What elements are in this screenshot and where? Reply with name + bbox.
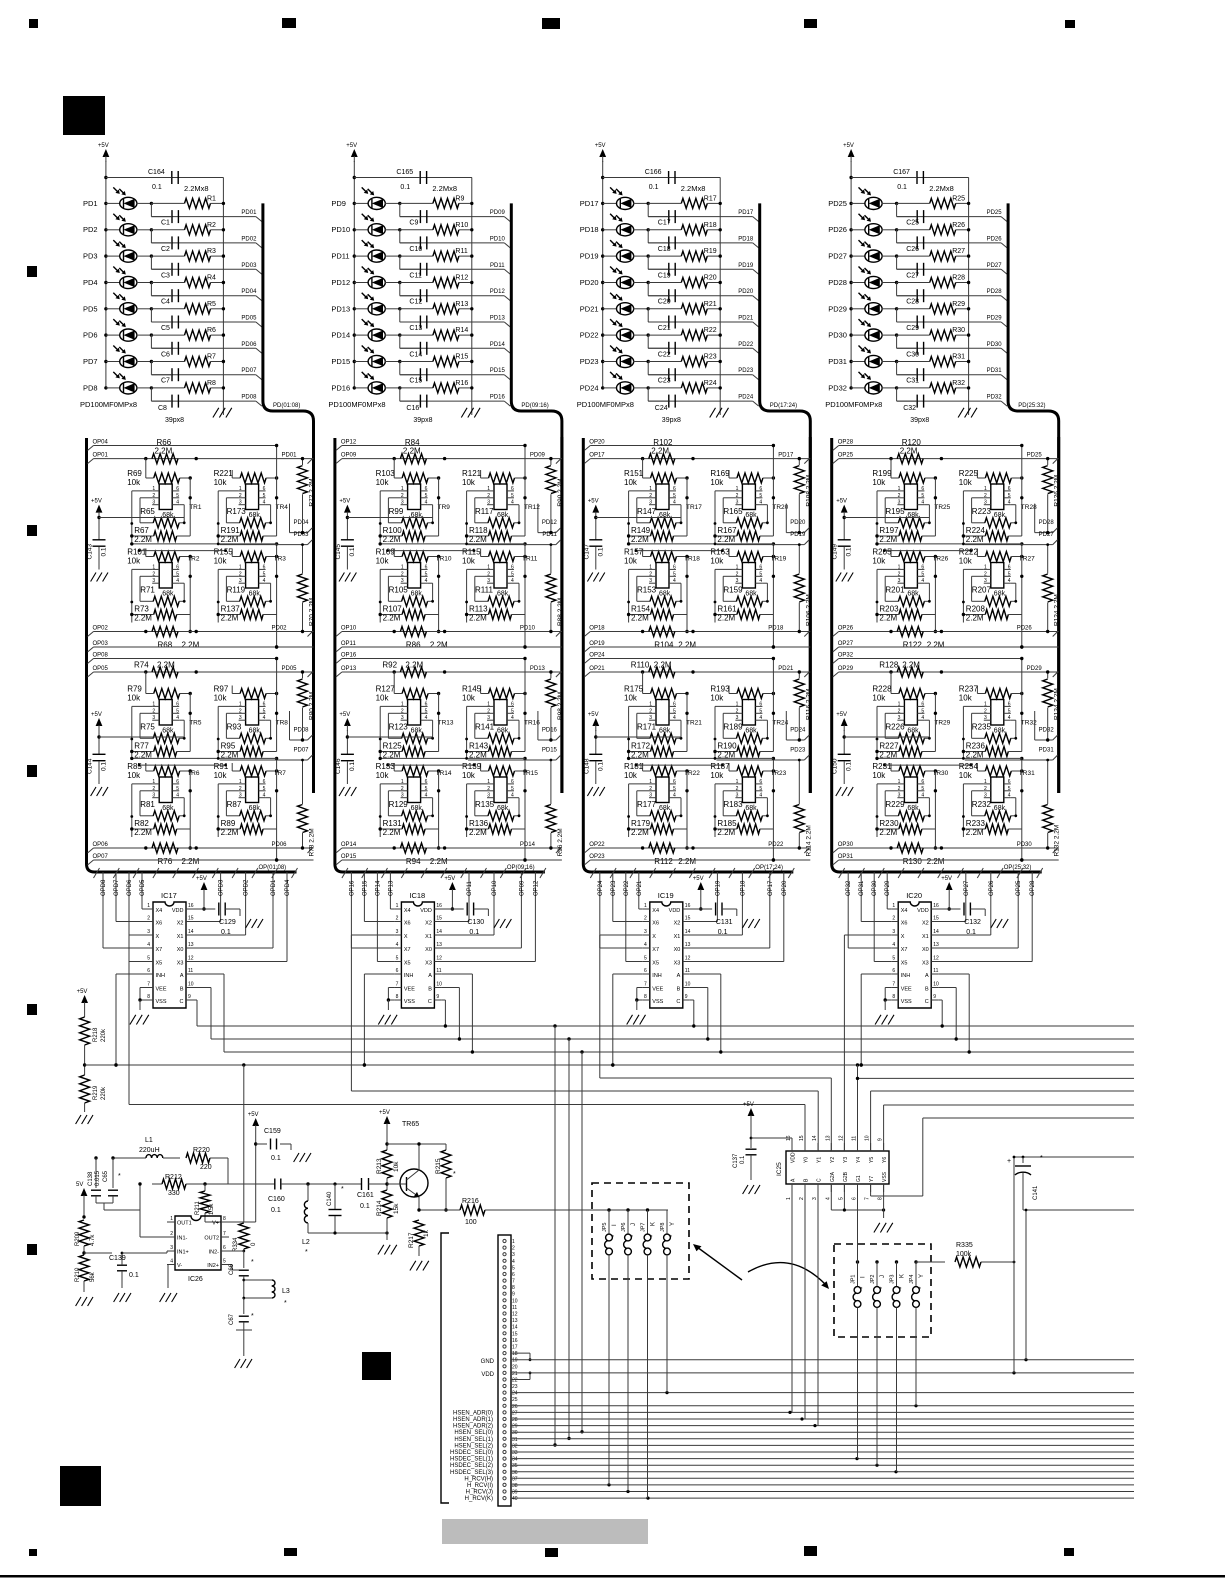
svg-text:+5V: +5V xyxy=(346,143,357,149)
svg-text:G1: G1 xyxy=(856,1175,862,1182)
net PD28 xyxy=(896,283,898,296)
svg-text:13: 13 xyxy=(436,942,442,948)
jumper JP2 xyxy=(875,1260,878,1263)
wire TR7 right xyxy=(276,771,278,829)
svg-text:R126 2.2M: R126 2.2M xyxy=(1054,475,1061,507)
svg-text:R98 2.2M: R98 2.2M xyxy=(557,692,564,720)
svg-text:OP16: OP16 xyxy=(341,653,357,659)
svg-text:8: 8 xyxy=(223,1216,226,1222)
svg-text:2.2M: 2.2M xyxy=(469,535,487,544)
svg-text:10k: 10k xyxy=(462,557,476,566)
svg-text:PD15: PD15 xyxy=(331,357,350,366)
svg-text:PD06: PD06 xyxy=(272,842,288,848)
svg-text:5: 5 xyxy=(511,708,514,714)
svg-text:VEE: VEE xyxy=(404,987,415,993)
svg-text:10k: 10k xyxy=(872,557,886,566)
wire IN2- xyxy=(229,1250,244,1252)
svg-text:5: 5 xyxy=(838,1197,844,1200)
resistor R14 xyxy=(398,333,401,336)
svg-text:1: 1 xyxy=(170,1216,173,1222)
svg-text:PD15: PD15 xyxy=(542,748,558,754)
net OP32 xyxy=(847,872,849,948)
wire TR27 right xyxy=(1021,557,1023,615)
svg-text:10k: 10k xyxy=(624,771,638,780)
svg-text:OP10: OP10 xyxy=(492,880,498,896)
svg-text:*: * xyxy=(251,1313,254,1320)
resistor R10 xyxy=(398,228,401,231)
svg-text:R80 2.2M: R80 2.2M xyxy=(309,692,316,720)
svg-text:IC18: IC18 xyxy=(409,891,425,900)
resistor R189 68k xyxy=(736,733,762,743)
net PD09 xyxy=(399,203,401,216)
svg-text:OPD7: OPD7 xyxy=(114,879,120,896)
bus PD(09:16) xyxy=(511,203,562,793)
pin 10 IC20 xyxy=(931,987,938,989)
wire TR28 left xyxy=(962,491,964,544)
svg-text:5: 5 xyxy=(176,493,179,499)
svg-text:X4: X4 xyxy=(652,908,659,914)
svg-text:+5V: +5V xyxy=(836,712,847,718)
svg-text:3: 3 xyxy=(170,1245,173,1251)
wire A IC25 xyxy=(791,1184,793,1412)
svg-text:2.2M: 2.2M xyxy=(430,641,448,650)
svg-text:34: 34 xyxy=(512,1457,518,1463)
resistor R11 xyxy=(398,254,401,257)
svg-text:C6: C6 xyxy=(161,351,170,358)
transistor TR26 xyxy=(904,563,917,589)
resistor R18 xyxy=(647,228,650,231)
svg-text:R229: R229 xyxy=(885,800,905,809)
svg-text:2.2M: 2.2M xyxy=(469,828,487,837)
svg-text:68k: 68k xyxy=(659,591,671,598)
svg-text:4: 4 xyxy=(673,715,676,721)
svg-text:2.2M: 2.2M xyxy=(631,614,649,623)
svg-text:1: 1 xyxy=(649,779,652,785)
svg-text:5: 5 xyxy=(263,493,266,499)
svg-text:10k: 10k xyxy=(872,478,886,487)
transistor TR28 xyxy=(991,484,1004,510)
svg-text:PD17: PD17 xyxy=(580,199,599,208)
resistor R8 xyxy=(150,386,153,389)
svg-text:PD21: PD21 xyxy=(778,666,794,672)
svg-text:R17: R17 xyxy=(704,195,717,202)
net OP19 xyxy=(716,872,718,922)
svg-text:4: 4 xyxy=(176,715,179,721)
wire INH IC17 xyxy=(116,973,146,975)
resistor R27 xyxy=(895,254,898,257)
ground block 3 xyxy=(710,408,716,418)
svg-text:6: 6 xyxy=(425,779,428,785)
wire TR6 left xyxy=(131,784,133,837)
svg-text:6: 6 xyxy=(223,1245,226,1251)
capacitor C145 0.1 xyxy=(341,539,354,541)
resistor R117 68k xyxy=(488,518,514,528)
capacitor C148 0.1 xyxy=(589,753,602,755)
svg-text:16: 16 xyxy=(436,903,442,909)
pin 13 connector xyxy=(503,1319,506,1322)
svg-text:VDD: VDD xyxy=(917,908,929,914)
resistor R99 68k xyxy=(402,518,428,528)
svg-text:6: 6 xyxy=(673,486,676,492)
svg-text:OP30: OP30 xyxy=(838,842,854,848)
svg-text:39px8: 39px8 xyxy=(165,417,184,424)
svg-text:OPD5: OPD5 xyxy=(140,879,146,896)
net PD23 xyxy=(804,755,809,760)
svg-text:5: 5 xyxy=(1008,493,1011,499)
pin 4 IC20 xyxy=(891,947,898,949)
svg-text:0.1: 0.1 xyxy=(360,1203,370,1210)
resistor R199 10k xyxy=(899,473,925,483)
svg-text:R218: R218 xyxy=(93,1027,99,1042)
svg-text:PD32: PD32 xyxy=(1039,728,1055,734)
wire X IC19 xyxy=(600,934,643,936)
svg-text:R228: R228 xyxy=(872,685,892,694)
wire TR14 right xyxy=(438,771,440,829)
ground xyxy=(410,1261,416,1271)
svg-text:28: 28 xyxy=(512,1417,518,1423)
pin 14 IC19 xyxy=(683,934,690,936)
svg-text:PD14: PD14 xyxy=(520,842,536,848)
pin 10 connector xyxy=(503,1299,506,1302)
svg-text:2: 2 xyxy=(239,493,242,499)
capacitor C150 0.1 xyxy=(838,753,851,755)
svg-text:10k: 10k xyxy=(127,694,141,703)
transistor TR23 xyxy=(742,777,755,803)
svg-text:68k: 68k xyxy=(745,728,757,735)
svg-text:68k: 68k xyxy=(249,512,261,519)
transistor TR12 xyxy=(494,484,507,510)
svg-text:PD32: PD32 xyxy=(987,395,1003,401)
svg-text:2.2M: 2.2M xyxy=(182,857,200,866)
resistor R112 2.2M xyxy=(649,843,675,853)
svg-text:C15: C15 xyxy=(409,378,422,385)
svg-text:2: 2 xyxy=(401,708,404,714)
svg-text:12: 12 xyxy=(838,1135,844,1141)
svg-text:*: * xyxy=(284,1300,287,1307)
svg-text:R77: R77 xyxy=(134,742,149,751)
svg-text:C13: C13 xyxy=(409,325,422,332)
transistor TR19 xyxy=(742,563,755,589)
pin 15 IC20 xyxy=(931,921,938,923)
svg-text:C4: C4 xyxy=(161,299,170,306)
svg-text:2: 2 xyxy=(401,571,404,577)
pin 9 IC20 xyxy=(931,999,938,1001)
resistor R237 10k xyxy=(985,689,1011,699)
net PD20 xyxy=(647,283,649,296)
svg-text:R26: R26 xyxy=(952,222,965,229)
wire TR19 right xyxy=(772,557,774,615)
wire TR25 left xyxy=(876,491,878,544)
svg-text:68k: 68k xyxy=(497,591,509,598)
svg-text:C10: C10 xyxy=(409,246,422,253)
svg-text:R163: R163 xyxy=(710,548,730,557)
svg-text:6: 6 xyxy=(759,701,762,707)
svg-text:4: 4 xyxy=(1008,578,1011,584)
wire TR31 right xyxy=(1021,771,1023,829)
resistor R104 2.2M xyxy=(649,627,675,637)
svg-text:2.2M: 2.2M xyxy=(430,857,448,866)
svg-text:6: 6 xyxy=(1008,701,1011,707)
svg-text:OP06: OP06 xyxy=(93,842,109,848)
svg-text:68k: 68k xyxy=(907,591,919,598)
svg-text:HSDEC_SEL(1): HSDEC_SEL(1) xyxy=(450,1457,493,1463)
svg-text:2: 2 xyxy=(487,786,490,792)
resistor R6 xyxy=(150,333,153,336)
resistor R213 10k xyxy=(382,1150,392,1178)
wire TR1 right xyxy=(189,478,191,536)
capacitor C141 xyxy=(1014,1156,1134,1158)
svg-text:R334: R334 xyxy=(233,1237,239,1252)
resistor R31 xyxy=(895,360,898,363)
resistor R143 2.2M xyxy=(489,747,512,757)
svg-text:OPD6: OPD6 xyxy=(127,879,133,896)
svg-text:X1: X1 xyxy=(674,934,681,940)
svg-text:4: 4 xyxy=(170,1259,173,1265)
svg-text:X3: X3 xyxy=(674,961,681,967)
wire A IC17 xyxy=(193,973,224,975)
svg-text:C27: C27 xyxy=(906,272,919,279)
svg-text:6: 6 xyxy=(759,486,762,492)
svg-text:OP15: OP15 xyxy=(341,854,357,860)
resistor R149 2.2M xyxy=(651,531,674,541)
svg-text:3: 3 xyxy=(984,715,987,721)
svg-text:3: 3 xyxy=(401,793,404,799)
resistor R157 10k xyxy=(651,552,677,562)
net PD07 xyxy=(150,362,152,375)
pin 6 IC17 xyxy=(146,973,153,975)
svg-text:5: 5 xyxy=(759,493,762,499)
svg-text:OP21: OP21 xyxy=(637,880,643,896)
svg-text:R151: R151 xyxy=(624,469,644,478)
svg-text:10k: 10k xyxy=(462,694,476,703)
svg-text:2: 2 xyxy=(736,571,739,577)
svg-text:2: 2 xyxy=(898,571,901,577)
net PD16 xyxy=(399,388,401,401)
+5V rail block 1 xyxy=(103,149,110,157)
capacitor C160 0.1 xyxy=(274,1179,276,1190)
svg-text:1.5k: 1.5k xyxy=(209,1203,215,1215)
svg-text:R223: R223 xyxy=(972,507,992,516)
svg-text:15: 15 xyxy=(436,916,442,922)
svg-text:4: 4 xyxy=(263,500,266,506)
pin 9 connector xyxy=(503,1292,506,1295)
svg-text:VEE: VEE xyxy=(901,987,912,993)
net OP17 xyxy=(584,459,590,464)
svg-text:2: 2 xyxy=(487,708,490,714)
svg-text:3: 3 xyxy=(644,929,647,935)
svg-text:7: 7 xyxy=(512,1279,515,1285)
wire TR10 left xyxy=(379,569,381,622)
net pin26 xyxy=(511,1405,1134,1407)
svg-text:R233: R233 xyxy=(966,819,986,828)
resistor R1 xyxy=(150,202,153,205)
svg-text:PD10: PD10 xyxy=(520,626,536,632)
svg-text:PD2: PD2 xyxy=(83,225,98,234)
op-amp IC18 xyxy=(401,902,434,1008)
part number box xyxy=(442,1519,648,1544)
net OP02 xyxy=(88,632,94,637)
pin 16 IC18 xyxy=(434,908,441,910)
svg-text:R82: R82 xyxy=(134,819,149,828)
svg-text:2.2M: 2.2M xyxy=(134,828,152,837)
svg-text:2: 2 xyxy=(152,571,155,577)
svg-text:R195: R195 xyxy=(885,507,905,516)
net OP11 xyxy=(336,647,342,652)
svg-text:PD(09:16): PD(09:16) xyxy=(521,403,548,409)
wire TR32 left xyxy=(962,706,964,759)
svg-text:JP6: JP6 xyxy=(621,1223,627,1232)
svg-text:3: 3 xyxy=(649,715,652,721)
svg-text:C149: C149 xyxy=(832,544,839,560)
svg-text:11: 11 xyxy=(685,968,690,974)
svg-text:2: 2 xyxy=(736,708,739,714)
svg-text:OPD2: OPD2 xyxy=(244,879,250,896)
resistor R137 2.2M xyxy=(240,610,263,620)
svg-text:OP01: OP01 xyxy=(93,453,109,459)
svg-text:+5V: +5V xyxy=(98,143,109,149)
resistor R122 2.2M xyxy=(897,627,923,637)
wire to R334 xyxy=(243,1065,245,1217)
net OP21 xyxy=(584,672,590,677)
resistor R203 2.2M xyxy=(899,610,922,620)
resistor R131 2.2M xyxy=(402,824,425,834)
resistor R3 xyxy=(150,254,153,257)
net PD06 xyxy=(150,335,152,348)
resistor R19 xyxy=(647,254,650,257)
net OP08 xyxy=(88,659,94,664)
svg-text:10: 10 xyxy=(933,982,939,988)
svg-text:R187: R187 xyxy=(710,762,730,771)
svg-text:OPD3: OPD3 xyxy=(219,879,225,896)
svg-text:*: * xyxy=(1040,1155,1043,1162)
svg-text:OP29: OP29 xyxy=(838,666,854,672)
svg-text:68k: 68k xyxy=(745,512,757,519)
svg-text:R106 2.2M: R106 2.2M xyxy=(805,594,812,626)
net PD04 xyxy=(150,283,152,296)
wire TR15 left xyxy=(466,784,468,837)
bottom rule xyxy=(0,1575,1225,1578)
svg-text:R93: R93 xyxy=(227,723,242,732)
svg-text:R201: R201 xyxy=(885,586,905,595)
svg-text:OP10: OP10 xyxy=(341,626,357,632)
svg-text:16: 16 xyxy=(188,903,194,909)
svg-text:3: 3 xyxy=(152,793,155,799)
wire TR12 left xyxy=(466,491,468,544)
wire TR6 right xyxy=(189,771,191,829)
wire TR7 left xyxy=(217,784,219,837)
wire TR30 right xyxy=(934,771,936,829)
svg-text:C140: C140 xyxy=(327,1191,333,1206)
svg-text:R133: R133 xyxy=(376,762,396,771)
svg-text:JP2: JP2 xyxy=(870,1275,876,1284)
ground xyxy=(874,1223,880,1233)
resistor R106 2.2M xyxy=(798,545,800,574)
svg-text:5: 5 xyxy=(759,708,762,714)
svg-text:13: 13 xyxy=(685,942,691,948)
resistor R228 10k xyxy=(899,689,925,699)
svg-text:2.2M: 2.2M xyxy=(631,535,649,544)
pin 39 connector xyxy=(503,1490,506,1493)
svg-text:PD20: PD20 xyxy=(790,520,806,526)
svg-text:R113: R113 xyxy=(469,605,488,614)
pin 22 connector xyxy=(503,1378,506,1381)
svg-text:OP09: OP09 xyxy=(519,880,525,896)
svg-text:6: 6 xyxy=(511,701,514,707)
svg-text:X5: X5 xyxy=(652,961,659,967)
svg-text:R210: R210 xyxy=(75,1267,81,1282)
wire TR22 left xyxy=(628,784,630,837)
op-amp IC20 xyxy=(898,902,931,1008)
svg-text:R127: R127 xyxy=(376,685,396,694)
svg-text:5: 5 xyxy=(673,571,676,577)
svg-text:3: 3 xyxy=(898,793,901,799)
pin 3 IC17 xyxy=(146,934,153,936)
pin 33 connector xyxy=(503,1450,506,1453)
resistor R97 10k xyxy=(240,689,266,699)
svg-text:10: 10 xyxy=(685,982,691,988)
svg-text:X2: X2 xyxy=(425,921,432,927)
pin 4 IC25 xyxy=(830,1184,832,1192)
pin 16 IC25 xyxy=(791,1143,793,1151)
pin 16 connector xyxy=(503,1338,506,1341)
svg-text:1: 1 xyxy=(736,779,739,785)
resistor R130 2.2M xyxy=(897,843,923,853)
svg-text:9: 9 xyxy=(685,994,688,1000)
svg-text:OP25: OP25 xyxy=(838,453,854,459)
svg-text:*: * xyxy=(305,1249,308,1256)
svg-text:13: 13 xyxy=(933,942,939,948)
resistor R67 2.2M xyxy=(154,531,177,541)
svg-text:OPD4: OPD4 xyxy=(285,879,291,896)
svg-text:X3: X3 xyxy=(177,961,184,967)
svg-text:4: 4 xyxy=(263,715,266,721)
resistor R227 2.2M xyxy=(899,747,922,757)
wire link xyxy=(877,757,1022,759)
pin 19 connector xyxy=(503,1358,506,1361)
svg-text:+5V: +5V xyxy=(196,876,207,882)
svg-text:PD8: PD8 xyxy=(83,383,98,392)
svg-text:JP3: JP3 xyxy=(890,1275,896,1284)
svg-text:4: 4 xyxy=(176,578,179,584)
svg-text:PD13: PD13 xyxy=(331,304,350,313)
svg-text:2: 2 xyxy=(644,916,647,922)
svg-text:6: 6 xyxy=(852,1197,858,1200)
svg-text:X7: X7 xyxy=(901,947,908,953)
connector bracket xyxy=(441,1233,449,1503)
svg-text:2.2Mx8: 2.2Mx8 xyxy=(184,184,209,193)
svg-text:+5V: +5V xyxy=(595,143,606,149)
jumper JP5 xyxy=(607,1208,610,1211)
svg-text:VSS: VSS xyxy=(882,1171,888,1182)
svg-text:2.2M: 2.2M xyxy=(654,661,672,670)
svg-text:R96 2.2M: R96 2.2M xyxy=(557,828,564,856)
svg-text:6: 6 xyxy=(673,779,676,785)
svg-text:R116 2.2M: R116 2.2M xyxy=(805,689,812,720)
pin 11 connector xyxy=(503,1305,506,1308)
net OP04 xyxy=(88,446,94,451)
svg-text:2: 2 xyxy=(649,708,652,714)
svg-text:R101: R101 xyxy=(127,548,147,557)
svg-text:6: 6 xyxy=(396,968,399,974)
svg-text:R190: R190 xyxy=(717,742,737,751)
resistor R231 10k xyxy=(899,766,925,776)
svg-text:10k: 10k xyxy=(214,557,228,566)
svg-text:10k: 10k xyxy=(624,478,638,487)
svg-text:4: 4 xyxy=(425,715,428,721)
svg-text:7: 7 xyxy=(223,1231,226,1237)
svg-text:R181: R181 xyxy=(624,762,644,771)
svg-text:R159: R159 xyxy=(723,586,743,595)
